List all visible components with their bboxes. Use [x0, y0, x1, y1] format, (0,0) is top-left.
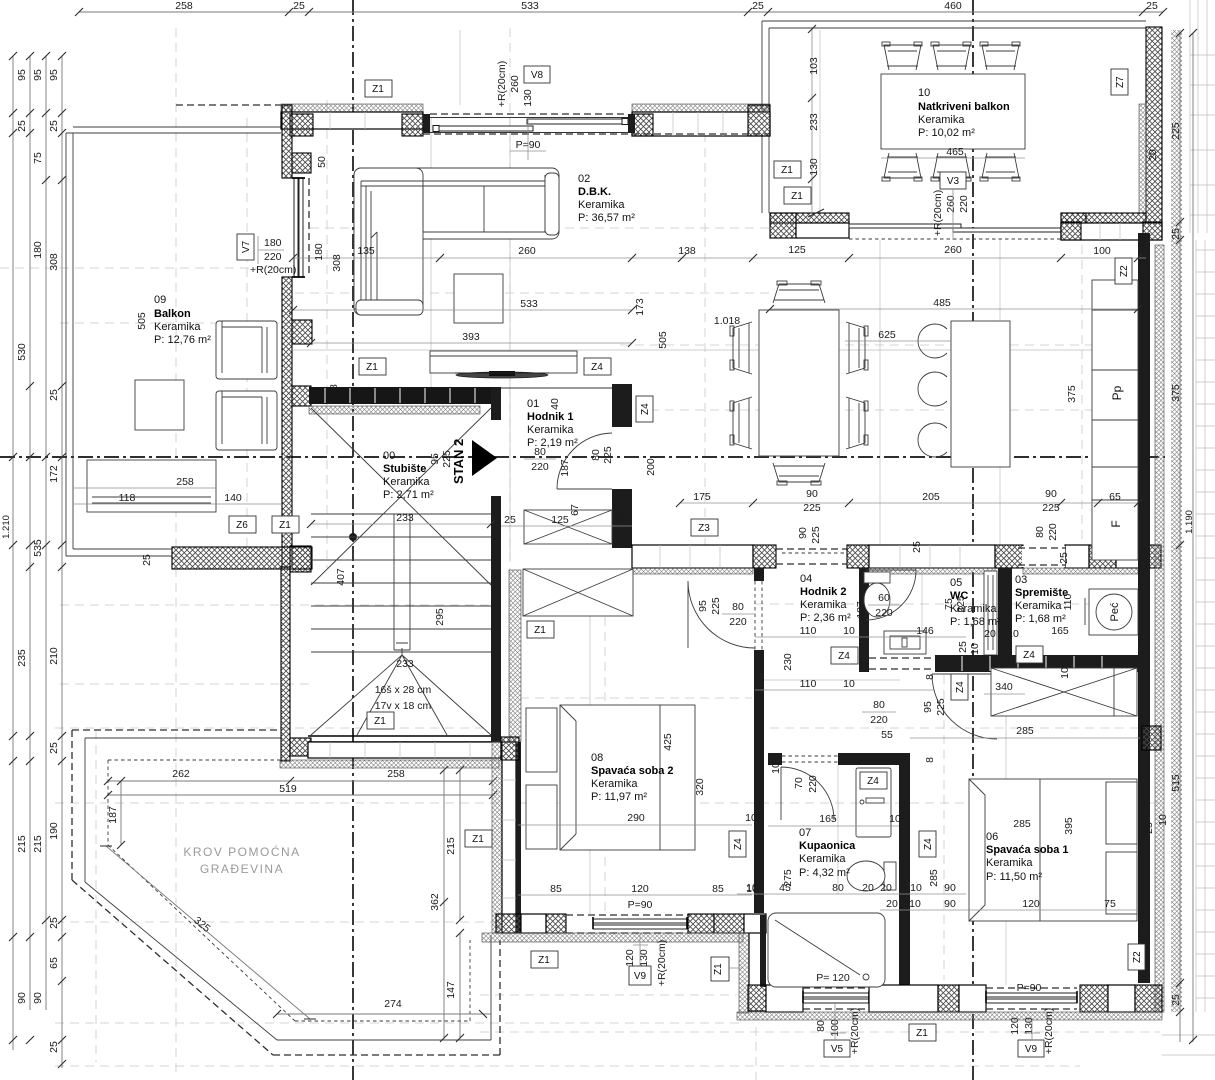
svg-text:Z1: Z1: [279, 520, 291, 531]
svg-text:Z1: Z1: [781, 165, 793, 176]
hodnik1 north insulation strip: [309, 406, 480, 414]
balkon south wall hatch right: [1061, 213, 1146, 223]
svg-text:172: 172: [48, 465, 60, 483]
label V8: [524, 66, 550, 83]
svg-text:Z4: Z4: [733, 838, 744, 850]
svg-text:80: 80: [815, 1020, 827, 1032]
door leaf in kupaonica: [856, 768, 891, 837]
svg-text:295: 295: [434, 608, 446, 626]
svg-text:Z4: Z4: [923, 838, 934, 850]
svg-text:220: 220: [264, 251, 282, 263]
svg-text:375: 375: [1066, 385, 1078, 403]
balkon09 armchair 1: [216, 321, 277, 379]
svg-text:220: 220: [531, 461, 549, 473]
svg-text:Keramika: Keramika: [527, 424, 574, 436]
dim chain y503 dining: [676, 488, 1142, 514]
svg-text:130: 130: [522, 89, 534, 107]
svg-text:STAN 2: STAN 2: [451, 439, 466, 484]
bedroom2 south pillar 2: [546, 914, 566, 933]
svg-text:D.B.K.: D.B.K.: [578, 186, 611, 198]
svg-text:175: 175: [693, 491, 711, 503]
svg-text:530: 530: [16, 343, 28, 361]
bathroom window V5: [803, 988, 869, 1009]
svg-text:25: 25: [48, 742, 60, 754]
svg-text:10: 10: [910, 882, 922, 894]
svg-text:Z1: Z1: [791, 191, 803, 202]
svg-text:395: 395: [1063, 817, 1075, 835]
svg-text:225: 225: [710, 597, 722, 615]
dimension chains: top: [75, 0, 1167, 16]
svg-text:465: 465: [946, 146, 964, 158]
hodnik2 entry door dashes: [782, 552, 845, 554]
svg-text:180: 180: [264, 237, 282, 249]
svg-text:80: 80: [534, 446, 546, 458]
svg-text:90: 90: [32, 992, 44, 1004]
svg-text:100: 100: [1093, 245, 1111, 257]
svg-text:8: 8: [924, 674, 936, 680]
svg-text:Z4: Z4: [640, 403, 651, 415]
svg-text:220: 220: [729, 616, 747, 628]
svg-text:Balkon: Balkon: [154, 308, 191, 320]
section line vertical x973: [972, 0, 974, 1080]
svg-text:V3: V3: [947, 176, 960, 187]
hodnik1 east wall upper: [612, 384, 632, 427]
kupaonica toilet: [847, 861, 896, 891]
kitchen north pillar left: [1061, 222, 1081, 240]
label Z4 tv wall: [584, 358, 611, 375]
tv cabinet: [430, 351, 577, 373]
svg-text:260: 260: [945, 195, 957, 213]
svg-text:Z7: Z7: [1115, 76, 1126, 88]
svg-text:P: 36,57 m²: P: 36,57 m²: [578, 212, 635, 224]
west wall pillar 2: [292, 153, 311, 173]
svg-text:258: 258: [176, 476, 194, 488]
svg-text:220: 220: [875, 607, 893, 619]
kitchen north wall band: [1061, 223, 1162, 240]
krov dimensions 215/362/147 vertical: [429, 766, 464, 1042]
svg-text:80: 80: [732, 601, 744, 613]
label Z4 bedroom2 rotated: [729, 831, 746, 857]
svg-text:V9: V9: [1025, 1044, 1038, 1055]
balcony chair top 1: [882, 42, 922, 70]
svg-text:258: 258: [175, 0, 193, 12]
dbk south wall cavity 2: [869, 545, 995, 568]
balkon09 armchair 2: [216, 391, 277, 450]
svg-text:+R(20cm): +R(20cm): [250, 264, 296, 276]
bottom band cavity 3: [959, 985, 986, 1012]
stubiste west pillar bottom: [290, 738, 311, 756]
svg-text:Keramika: Keramika: [800, 599, 847, 611]
west exterior wall lower part: [282, 277, 292, 567]
svg-text:285: 285: [928, 869, 940, 887]
svg-text:Z1: Z1: [374, 716, 386, 727]
svg-text:340: 340: [995, 681, 1013, 693]
balkon south pillar right: [1061, 213, 1086, 238]
label Z4 kupaonica east rotated: [919, 831, 936, 857]
faint solid guide lines: [293, 30, 1138, 985]
svg-text:95: 95: [48, 69, 60, 81]
svg-text:P: 11,50 m²: P: 11,50 m²: [986, 871, 1042, 883]
svg-text:Keramika: Keramika: [1015, 600, 1062, 612]
svg-text:+R(20cm): +R(20cm): [1043, 1008, 1055, 1054]
svg-text:P: 10,02 m²: P: 10,02 m²: [918, 127, 975, 139]
svg-text:485: 485: [933, 297, 951, 309]
svg-text:187: 187: [559, 459, 571, 477]
dim 103/233/130 balcony: [808, 25, 824, 217]
dim hodnik2 rows: [697, 524, 1074, 763]
svg-text:285: 285: [1016, 725, 1034, 737]
room label stubiste: [383, 450, 434, 501]
svg-text:1.190: 1.190: [1184, 510, 1195, 534]
svg-text:Z4: Z4: [591, 362, 603, 373]
dining chair right 2: [846, 397, 868, 449]
svg-text:60: 60: [878, 592, 890, 604]
svg-text:135: 135: [357, 245, 375, 257]
balkon slider dashed inner line: [849, 238, 1061, 240]
svg-text:275: 275: [782, 869, 794, 887]
dim kupaonica rows: [737, 762, 966, 984]
svg-text:205: 205: [922, 491, 940, 503]
label V3: [940, 172, 966, 189]
svg-text:10: 10: [611, 514, 623, 526]
balkon 09 railing: [66, 127, 281, 556]
svg-text:25: 25: [48, 917, 60, 929]
svg-text:90: 90: [944, 882, 956, 894]
svg-text:Natkriveni balkon: Natkriveni balkon: [918, 101, 1010, 113]
svg-text:505: 505: [657, 331, 669, 349]
bottom insulation strip: [737, 1012, 1162, 1020]
svg-text:P=90: P=90: [628, 899, 653, 911]
dbk south wall pillar 2: [847, 545, 869, 568]
svg-text:Keramika: Keramika: [383, 476, 430, 488]
svg-text:80: 80: [832, 882, 844, 894]
svg-text:05: 05: [950, 577, 962, 589]
stubiste south wall cavity: [308, 742, 501, 758]
svg-text:10: 10: [1157, 814, 1169, 826]
kitchen north pillar right: [1143, 222, 1162, 240]
svg-text:285: 285: [1013, 818, 1031, 830]
label Z1 bottom b rotated: [711, 957, 742, 981]
svg-text:20: 20: [880, 882, 892, 894]
dim west side rotated: [136, 156, 464, 626]
krov room text: [183, 844, 300, 876]
svg-text:65: 65: [1109, 491, 1121, 503]
svg-text:147: 147: [445, 981, 457, 999]
svg-text:505: 505: [136, 312, 148, 330]
svg-text:Keramika: Keramika: [986, 857, 1033, 869]
svg-text:118: 118: [119, 492, 136, 504]
svg-text:215: 215: [16, 835, 28, 853]
svg-text:260: 260: [509, 75, 521, 93]
bedroom2 south cavity 2: [714, 914, 744, 933]
svg-text:225: 225: [1042, 502, 1060, 514]
svg-text:KROV POMOĆNA: KROV POMOĆNA: [183, 844, 300, 859]
kupaonica door post: [768, 753, 782, 765]
svg-text:25: 25: [1170, 228, 1182, 240]
door arc wc: [866, 570, 916, 620]
hodnik1 top thin line: [501, 387, 612, 389]
svg-text:25: 25: [48, 120, 60, 132]
svg-text:20: 20: [862, 882, 874, 894]
label V9 dims bedroom1 rotated: [1009, 1008, 1055, 1054]
svg-text:Z1: Z1: [472, 834, 484, 845]
bedroom2 south band pillar 1: [496, 914, 521, 933]
svg-text:10: 10: [745, 812, 757, 824]
svg-text:90: 90: [16, 992, 28, 1004]
label V9 bedroom1: [1018, 1040, 1044, 1057]
svg-text:Keramika: Keramika: [591, 778, 638, 790]
svg-text:260: 260: [944, 244, 962, 256]
dbk south wall pillar 4: [1089, 545, 1116, 568]
svg-text:25: 25: [48, 389, 60, 401]
hodnik1 east wall lower: [612, 489, 632, 548]
wall pillar at balcony west corner: [748, 105, 770, 136]
top exterior wall insulation strip right: [632, 104, 770, 112]
svg-text:80: 80: [590, 449, 602, 461]
svg-text:03: 03: [1015, 574, 1027, 586]
svg-text:Keramika: Keramika: [154, 321, 201, 333]
krov pomocne gradevine outer dashed outline: [72, 730, 500, 1055]
svg-text:+R(20cm): +R(20cm): [496, 61, 508, 107]
svg-text:10: 10: [1007, 628, 1019, 640]
label Z4 hodnik1 rotated: [636, 396, 653, 422]
svg-text:Z1: Z1: [713, 963, 724, 975]
balcony chair bottom 1: [882, 153, 922, 181]
svg-text:215: 215: [32, 835, 44, 853]
svg-text:Z1: Z1: [534, 625, 546, 636]
svg-text:125: 125: [788, 244, 806, 256]
svg-text:515: 515: [1170, 774, 1182, 792]
bedroom2 south window segment: [566, 915, 690, 933]
svg-text:07: 07: [799, 827, 811, 839]
dim bedroom2: [518, 733, 758, 911]
svg-text:P: 12,76 m²: P: 12,76 m²: [154, 334, 211, 346]
bedroom2 west exterior wall: [492, 742, 502, 933]
stair east wall cavity strip: [509, 570, 521, 742]
west wall pillar 3: [292, 320, 312, 344]
svg-text:25: 25: [1058, 552, 1070, 564]
dim bedroom1: [880, 814, 1169, 994]
svg-text:308: 308: [331, 254, 343, 272]
bottom band pillar b: [1080, 985, 1108, 1012]
room label hodnik1: [527, 398, 578, 449]
label Z6: [229, 516, 256, 533]
svg-text:10: 10: [909, 898, 921, 910]
svg-text:25: 25: [1146, 0, 1158, 12]
svg-text:220: 220: [807, 775, 819, 793]
krov solid outline: [85, 738, 491, 1040]
svg-text:75: 75: [1104, 898, 1116, 910]
bedroom2 south insulation strip: [482, 933, 743, 942]
svg-text:+R(20cm): +R(20cm): [932, 190, 944, 236]
label Z4 hall a: [831, 647, 858, 664]
svg-text:215: 215: [445, 837, 457, 855]
neighbour building faint gray (top right): [1162, 0, 1215, 1055]
svg-text:25: 25: [752, 0, 764, 12]
label Z2 bottom rotated: [1128, 944, 1145, 970]
svg-text:262: 262: [172, 768, 190, 780]
dim hodnik1 row: [501, 504, 632, 526]
svg-text:75: 75: [943, 598, 955, 610]
svg-text:V9: V9: [634, 971, 647, 982]
svg-text:Spremište: Spremište: [1015, 587, 1068, 599]
east wall pillar middle: [1142, 726, 1161, 750]
svg-text:233: 233: [396, 512, 414, 524]
dim 393: [307, 331, 636, 347]
svg-text:125: 125: [551, 514, 569, 526]
wc pocket door element: [984, 571, 997, 655]
svg-text:40: 40: [549, 398, 561, 410]
svg-text:187: 187: [855, 601, 867, 619]
room label wc: [950, 577, 1001, 628]
svg-text:00: 00: [383, 450, 395, 462]
svg-text:P= 120: P= 120: [816, 972, 850, 984]
svg-text:180: 180: [32, 241, 44, 259]
hall south wall left stub: [859, 655, 869, 672]
stair cross diagonals: [311, 408, 491, 585]
svg-text:393: 393: [462, 331, 480, 343]
top exterior wall cavity left: [281, 112, 423, 129]
kitchen island counter: [951, 321, 1010, 467]
svg-text:533: 533: [521, 0, 539, 12]
dbk south wall band west part: [632, 545, 753, 568]
svg-text:Stubište: Stubište: [383, 463, 426, 475]
svg-text:10: 10: [889, 813, 901, 825]
tv: [455, 371, 549, 378]
dbk corner sofa: [354, 168, 559, 315]
svg-text:Z4: Z4: [838, 651, 850, 662]
svg-text:90: 90: [797, 527, 809, 539]
svg-text:P: 2,36 m²: P: 2,36 m²: [800, 612, 851, 624]
dining chair top: [773, 281, 825, 303]
svg-text:P: 2,71 m²: P: 2,71 m²: [383, 489, 434, 501]
svg-text:10: 10: [843, 625, 855, 637]
svg-text:230: 230: [782, 653, 794, 671]
balkon sliding door: [849, 224, 1061, 232]
svg-text:290: 290: [627, 812, 645, 824]
section line vertical x353: [352, 0, 354, 1080]
dim 485 kitchen: [766, 297, 1142, 313]
svg-text:235: 235: [16, 649, 28, 667]
wc spremiste divider wall: [998, 568, 1012, 655]
section line horizontal y457: [0, 456, 1165, 458]
balkon south pillar left: [770, 213, 796, 238]
dim 533 dbk: [289, 298, 636, 314]
balkon south wall hatch left: [770, 213, 849, 223]
krov inner dashed offset: [108, 760, 470, 1021]
svg-text:08: 08: [591, 752, 603, 764]
stair treads: [311, 514, 491, 652]
dim hodnik1 door dims: [429, 298, 1078, 477]
bathroom south band cavity: [766, 985, 803, 1012]
east exterior wall: [1138, 233, 1150, 983]
spremiste pec square: [1085, 589, 1138, 635]
svg-text:225: 225: [810, 526, 822, 544]
svg-text:V8: V8: [531, 70, 544, 81]
svg-text:25: 25: [957, 641, 969, 653]
stubiste south insulation strip: [280, 760, 499, 768]
svg-text:138: 138: [678, 245, 696, 257]
krov dimension 187: [107, 777, 125, 849]
dim spremiste row: [910, 667, 1140, 738]
svg-text:Peć: Peć: [1109, 602, 1121, 621]
wall pillar right of window V8: [632, 114, 653, 136]
hall south wall main: [935, 655, 1138, 672]
svg-text:F: F: [1109, 520, 1123, 527]
bedroom2 east wall main: [754, 650, 764, 913]
svg-text:Spavaća soba 2: Spavaća soba 2: [591, 765, 674, 777]
svg-text:210: 210: [48, 647, 60, 665]
label Z1 balcony a: [774, 161, 801, 178]
top exterior wall cavity right: [632, 112, 770, 136]
balkon09 south wall: [172, 547, 312, 569]
label Z1 sofa wall: [359, 358, 386, 375]
svg-text:Z4: Z4: [1023, 650, 1035, 661]
label Z3: [691, 519, 718, 536]
krov dimension 274 bottom: [273, 998, 491, 1018]
wall post west of hodnik1 door: [491, 387, 501, 420]
svg-text:Z1: Z1: [538, 955, 550, 966]
svg-text:+R(20cm): +R(20cm): [656, 940, 668, 986]
dining chair right 1: [846, 322, 868, 374]
dining table: [759, 310, 839, 456]
bathroom south cavity 2: [869, 985, 938, 1012]
svg-text:120: 120: [1022, 898, 1040, 910]
dbk south wall door gap dashes: [776, 549, 847, 564]
room label spavaca soba 1: [986, 831, 1069, 883]
svg-text:+R(20cm): +R(20cm): [849, 1008, 861, 1054]
label Z4 kupaonica door: [860, 772, 887, 789]
label Z1 top: [365, 80, 392, 97]
svg-text:Z1: Z1: [366, 362, 378, 373]
kupaonica east wall: [899, 753, 910, 985]
svg-text:Z2: Z2: [1132, 951, 1143, 963]
dim 625: [845, 329, 951, 341]
svg-text:533: 533: [520, 298, 538, 310]
bedroom2 east wall top post: [754, 568, 764, 581]
dimension chains: right: [1170, 29, 1197, 1044]
dbk coffee table: [454, 274, 503, 323]
svg-text:25: 25: [293, 0, 305, 12]
svg-text:90: 90: [944, 898, 956, 910]
svg-text:Kupaonica: Kupaonica: [799, 840, 856, 852]
bedroom2 wardrobe crossed: [523, 569, 633, 616]
svg-text:Hodnik 1: Hodnik 1: [527, 411, 573, 423]
svg-text:55: 55: [881, 729, 893, 741]
svg-text:Z2: Z2: [1119, 265, 1130, 277]
dimension chains: left: [1, 52, 66, 1068]
svg-text:Hodnik 2: Hodnik 2: [800, 586, 846, 598]
svg-text:18: 18: [452, 393, 464, 405]
svg-text:85: 85: [550, 883, 562, 895]
svg-text:50: 50: [316, 156, 328, 168]
svg-text:85: 85: [712, 883, 724, 895]
bottom band pillar c corner: [1135, 985, 1162, 1012]
svg-text:375: 375: [1170, 384, 1182, 402]
room label kupaonica: [799, 827, 856, 879]
svg-text:220: 220: [870, 714, 888, 726]
svg-text:Keramika: Keramika: [578, 199, 625, 211]
door arc hodnik1 east: [557, 433, 612, 489]
svg-text:P: 1,68 m²: P: 1,68 m²: [1015, 613, 1066, 625]
svg-text:180: 180: [313, 243, 325, 261]
dim 233 stair: [307, 512, 495, 528]
stan2 entry triangle: [472, 440, 497, 476]
svg-text:535: 535: [32, 539, 44, 557]
bedroom2 south cavity 1: [521, 914, 546, 933]
stubiste south wall line: [308, 736, 501, 742]
balkon south wall cavity: [796, 223, 849, 238]
